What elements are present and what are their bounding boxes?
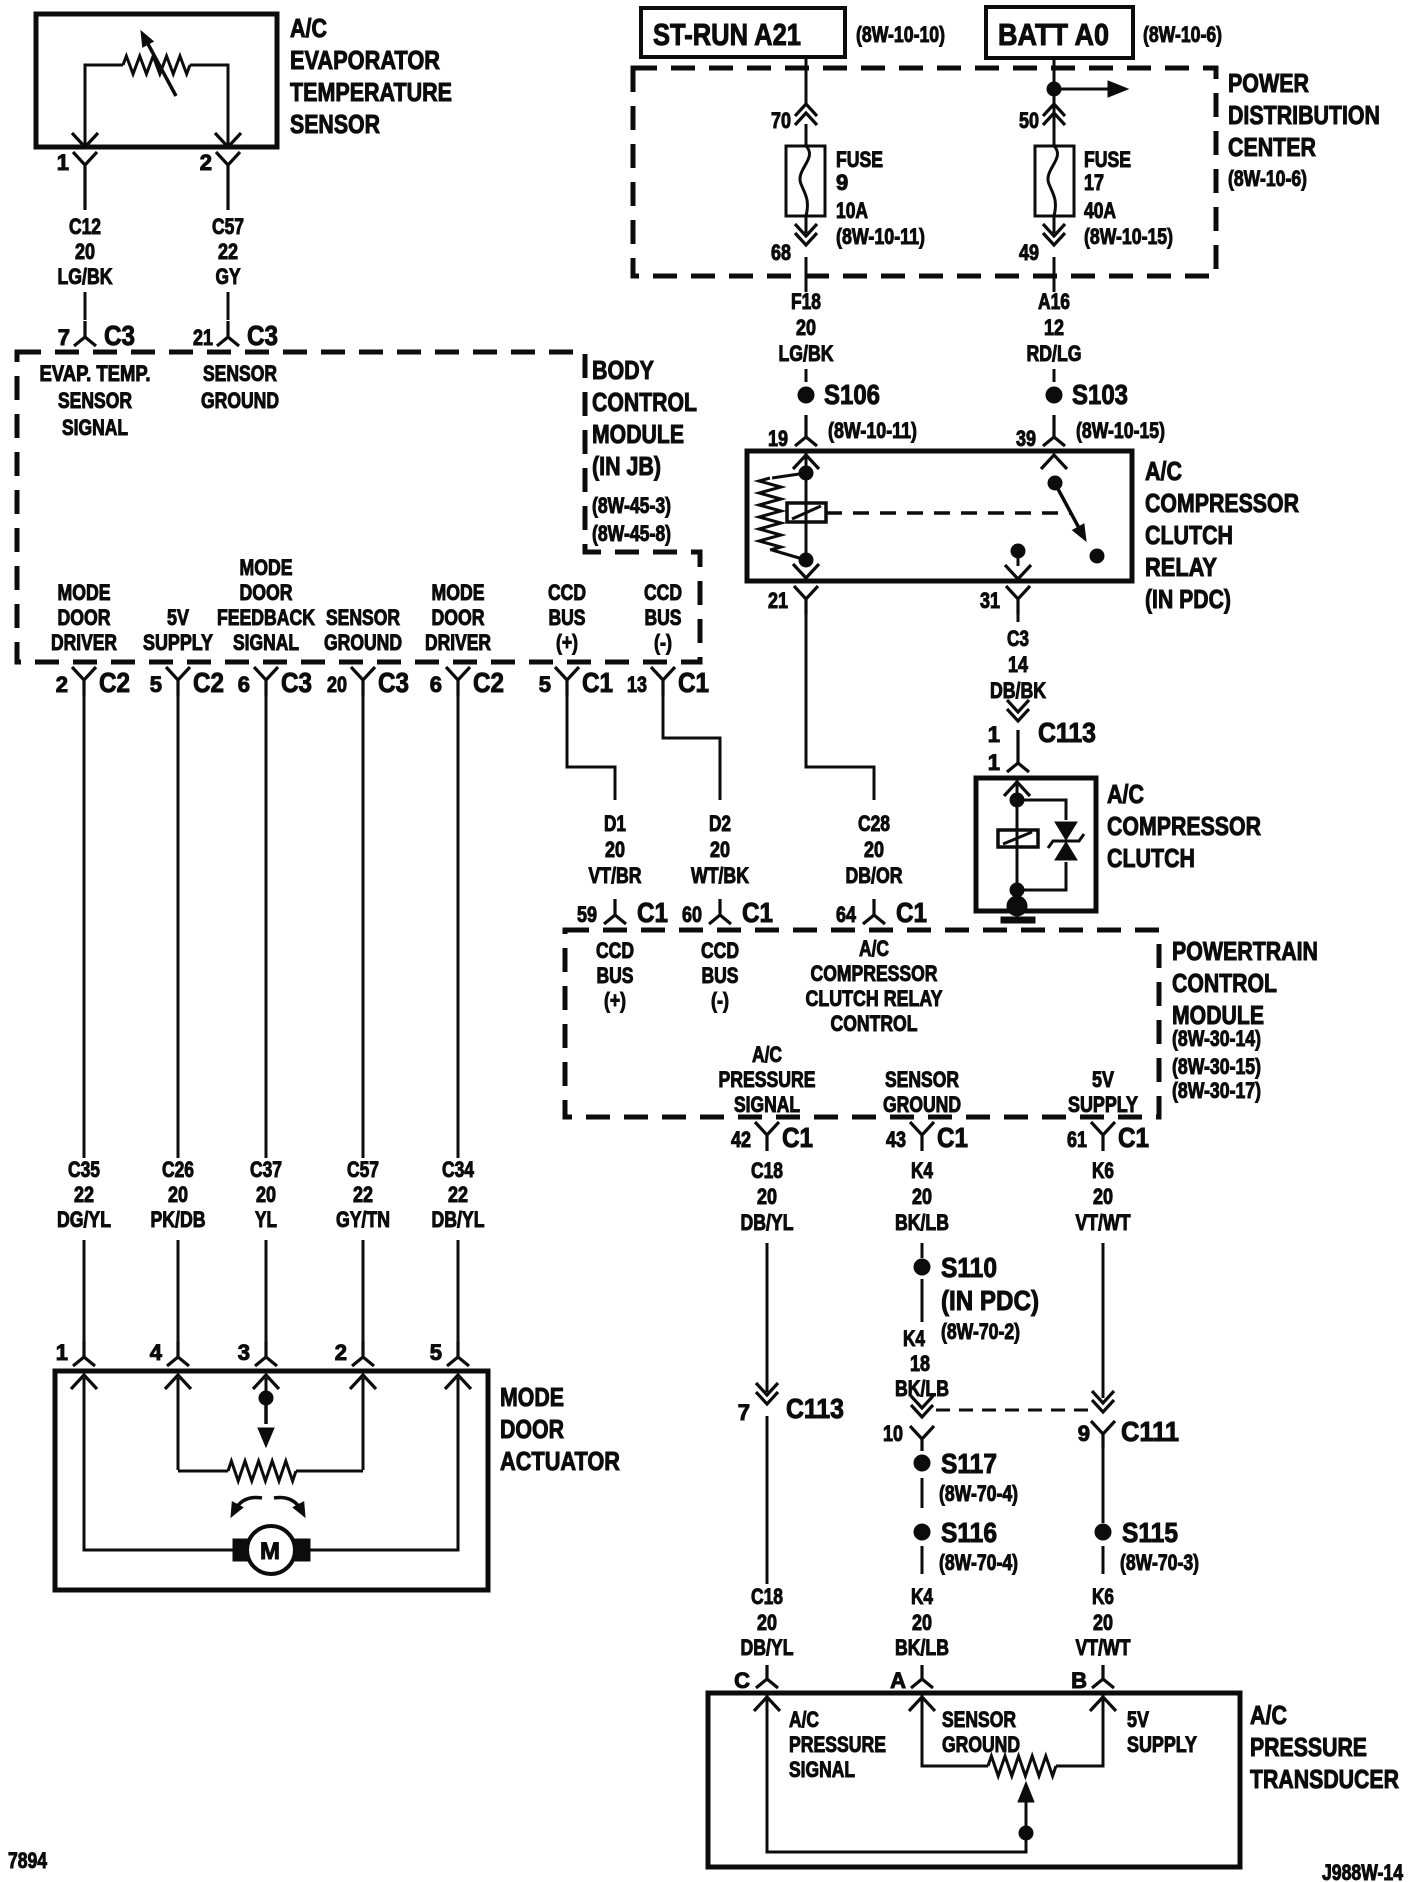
svg-text:MODULE: MODULE: [592, 419, 684, 449]
wire: S115 down: [1102, 1546, 1105, 1574]
svg-text:S117: S117: [941, 1448, 997, 1479]
svg-text:CCD: CCD: [701, 938, 739, 963]
svg-text:42: 42: [731, 1127, 751, 1152]
svg-text:(IN JB): (IN JB): [592, 451, 661, 481]
svg-text:(8W-45-8): (8W-45-8): [592, 521, 671, 546]
svg-text:1: 1: [988, 722, 1000, 747]
svg-text:COMPRESSOR: COMPRESSOR: [1107, 811, 1261, 841]
clutch coil L1: [998, 830, 1038, 847]
svg-text:7: 7: [58, 325, 70, 350]
svg-text:CONTROL: CONTROL: [592, 387, 697, 417]
splice S110: [914, 1252, 997, 1283]
svg-text:DOOR: DOOR: [58, 605, 111, 630]
svg-text:VT/WT: VT/WT: [1076, 1210, 1131, 1235]
connector pin 2 (mode door actuator): [335, 1340, 374, 1366]
wire: S117 to S116: [921, 1478, 924, 1508]
label: BCM function at x=266: [217, 555, 315, 655]
arrow: rotation arc left: [231, 1498, 262, 1518]
connector pin 21 (relay bottom): [768, 586, 818, 615]
label: wire C57 22 GY: [212, 214, 244, 289]
svg-text:20: 20: [327, 672, 347, 697]
label: wire C37 20 YL: [250, 1157, 282, 1232]
connector pin B (transducer): [1071, 1665, 1114, 1693]
svg-text:SUPPLY: SUPPLY: [1068, 1092, 1138, 1117]
svg-text:K4: K4: [911, 1584, 934, 1609]
svg-text:CONTROL: CONTROL: [1172, 968, 1277, 998]
label: POWER DISTRIBUTION CENTER (8W-10-6): [1228, 68, 1380, 191]
svg-text:5: 5: [539, 672, 551, 697]
svg-text:BUS: BUS: [645, 605, 682, 630]
svg-text:CLUTCH: CLUTCH: [1145, 520, 1233, 550]
arrow into actuator at x=84: [71, 1375, 97, 1389]
label: (8W-70-3) at S115: [1120, 1550, 1199, 1575]
dashed link: in-line connector C111: [936, 1409, 1089, 1412]
ground: clutch case ground: [1001, 896, 1035, 923]
label: A/C PRESSURE SIGNAL (PCM): [719, 1042, 816, 1117]
label: wire K4 20 BK/LB (upper): [895, 1158, 949, 1235]
label: BODY CONTROL MODULE (IN JB): [592, 355, 697, 546]
svg-text:5: 5: [430, 1340, 442, 1365]
svg-text:K6: K6: [1092, 1158, 1114, 1183]
label: (8W-70-4) at S117: [939, 1481, 1018, 1506]
wire: C26 20 PK/DB (lower segment): [177, 1240, 180, 1346]
connector pin 60 C1 (PCM): [682, 897, 773, 928]
svg-text:K4: K4: [911, 1158, 934, 1183]
label: A/C COMPRESSOR CLUTCH: [1107, 779, 1261, 873]
dashed link: relay armature: [826, 511, 1071, 515]
svg-text:C35: C35: [68, 1157, 100, 1182]
svg-text:10: 10: [883, 1421, 903, 1446]
svg-text:SENSOR: SENSOR: [203, 361, 277, 386]
svg-text:(8W-70-3): (8W-70-3): [1120, 1550, 1199, 1575]
svg-text:C2: C2: [99, 667, 130, 698]
wire: actuator pin 5 to motor: [309, 1378, 458, 1550]
label: EVAP. TEMP. SENSOR SIGNAL: [40, 361, 151, 440]
svg-text:M: M: [260, 1538, 280, 1565]
label: BCM function at x=567: [548, 580, 586, 655]
label: SENSOR GROUND (BCM pin 21): [201, 361, 279, 413]
svg-text:C111: C111: [1121, 1416, 1179, 1447]
label: (IN PDC) (8W-70-2) at S110: [941, 1285, 1039, 1344]
label: wire D2 20 WT/BK: [691, 811, 749, 888]
connector pin C (transducer): [734, 1665, 778, 1693]
wire: C111 pin 9 to S115: [1102, 1448, 1105, 1523]
svg-text:61: 61: [1067, 1127, 1087, 1152]
label: BCM function at x=458: [425, 580, 491, 655]
resistor: mode door feedback potentiometer: [178, 1461, 363, 1481]
box: body control module (dashed): [17, 352, 700, 662]
svg-text:DOOR: DOOR: [500, 1414, 564, 1444]
box: BATT A0 feed: [986, 7, 1133, 58]
wire: BATT A0 into PDC: [1053, 58, 1056, 146]
svg-text:LG/BK: LG/BK: [58, 264, 113, 289]
node: clutch coil top junction: [1010, 793, 1024, 807]
node: relay coil bottom junction: [799, 553, 813, 567]
svg-text:F18: F18: [791, 289, 821, 314]
svg-text:DRIVER: DRIVER: [425, 630, 491, 655]
svg-text:DRIVER: DRIVER: [51, 630, 117, 655]
svg-text:PRESSURE: PRESSURE: [1250, 1732, 1367, 1762]
label: A/C EVAPORATOR TEMPERATURE SENSOR: [290, 13, 452, 139]
svg-text:50: 50: [1019, 108, 1039, 133]
svg-text:A/C: A/C: [290, 13, 327, 43]
svg-text:14: 14: [1008, 652, 1029, 677]
connector pin 49 (PDC): [1019, 224, 1065, 265]
label: FUSE 9 10A (8W-10-11): [836, 147, 925, 249]
svg-text:C2: C2: [193, 667, 224, 698]
svg-text:VT/WT: VT/WT: [1076, 1635, 1131, 1660]
label: wire C12 20 LG/BK: [58, 214, 113, 289]
connector pin 31 (relay bottom): [980, 586, 1030, 615]
arrow into actuator at x=363: [350, 1375, 376, 1389]
svg-text:SENSOR: SENSOR: [290, 109, 380, 139]
svg-text:C113: C113: [1038, 717, 1096, 748]
wire: relay coil vertical: [805, 451, 808, 560]
arrow: feedback wiper: [258, 1398, 274, 1447]
svg-text:12: 12: [1044, 315, 1064, 340]
connector pin 39 (relay): [1016, 415, 1065, 451]
svg-text:(8W-30-14): (8W-30-14): [1172, 1026, 1261, 1051]
label: figure number 7894: [8, 1848, 48, 1873]
arrow into transducer pin B: [1090, 1697, 1116, 1711]
svg-text:CCD: CCD: [596, 938, 634, 963]
svg-text:C57: C57: [347, 1157, 379, 1182]
arrow out of relay at terminal 31: [1005, 565, 1031, 579]
label: wire A16 12 RD/LG: [1027, 289, 1082, 366]
svg-text:(+): (+): [556, 630, 578, 655]
svg-text:1: 1: [56, 1340, 68, 1365]
label: (8W-10-6): [1143, 22, 1222, 47]
svg-text:CENTER: CENTER: [1228, 132, 1316, 162]
svg-text:DB/YL: DB/YL: [741, 1635, 794, 1660]
connector pin 50 (PDC): [1019, 104, 1065, 133]
svg-text:BUS: BUS: [702, 963, 739, 988]
svg-text:7: 7: [738, 1400, 750, 1425]
svg-text:C18: C18: [751, 1158, 783, 1183]
label: wire K4 20 BK/LB (lower): [895, 1584, 949, 1660]
label: A/C COMPRESSOR CLUTCH RELAY (IN PDC): [1145, 456, 1299, 614]
svg-text:BODY: BODY: [592, 355, 654, 385]
connector pin 68 (PDC): [771, 224, 817, 265]
connector pin 5 C2 (BCM bottom): [150, 667, 224, 698]
node: wiper junction: [1019, 1826, 1033, 1840]
label: A/C COMPRESSOR CLUTCH RELAY CONTROL: [806, 936, 943, 1036]
connector pin 42 C1 (PCM bottom): [731, 1122, 813, 1153]
wire: CCD bus (-) BCM 13 to PCM 60 (D2): [663, 694, 720, 800]
svg-text:C12: C12: [69, 214, 101, 239]
label: CCD BUS (+) (PCM): [596, 938, 634, 1013]
label: 1 C113: [988, 717, 1096, 748]
connector pin 6 C2 (BCM bottom): [430, 667, 504, 698]
svg-text:SENSOR: SENSOR: [885, 1067, 959, 1092]
node: clutch coil bottom junction: [1010, 883, 1024, 897]
svg-text:C1: C1: [637, 897, 668, 928]
splice S117: [914, 1448, 997, 1479]
splice S116: [914, 1517, 997, 1548]
svg-text:C28: C28: [858, 811, 890, 836]
wire: C34 22 DB/YL (lower segment): [457, 1240, 460, 1346]
svg-text:4: 4: [150, 1340, 163, 1365]
connector pin 9 (male half): [1078, 1416, 1179, 1448]
connector C113 pin 7: [738, 1383, 844, 1425]
svg-text:C1: C1: [937, 1122, 968, 1153]
arrow into transducer pin C: [754, 1697, 780, 1711]
wire: relay 21 to PCM 64 (C28): [806, 615, 874, 800]
svg-text:FUSE: FUSE: [836, 147, 883, 172]
svg-text:SIGNAL: SIGNAL: [734, 1092, 800, 1117]
svg-text:20: 20: [757, 1610, 777, 1635]
svg-text:TEMPERATURE: TEMPERATURE: [290, 77, 452, 107]
svg-text:9: 9: [836, 170, 848, 195]
wire: stub above splice S103: [1053, 369, 1056, 382]
svg-text:BK/LB: BK/LB: [895, 1376, 949, 1401]
svg-text:2: 2: [335, 1340, 347, 1365]
svg-text:C34: C34: [442, 1157, 475, 1182]
svg-text:A/C: A/C: [1250, 1700, 1287, 1730]
label: wire C28 20 DB/OR: [846, 811, 903, 888]
svg-text:CCD: CCD: [548, 580, 586, 605]
svg-text:DOOR: DOOR: [432, 605, 485, 630]
svg-text:GROUND: GROUND: [883, 1092, 961, 1117]
svg-text:S106: S106: [824, 379, 880, 410]
splice S103: [1046, 379, 1128, 410]
svg-text:60: 60: [682, 902, 702, 927]
connector pin A (transducer): [890, 1665, 933, 1693]
label: wire C18 20 DB/YL (lower): [741, 1584, 794, 1660]
svg-text:C18: C18: [751, 1584, 783, 1609]
svg-text:SENSOR: SENSOR: [326, 605, 400, 630]
label: (8W-10-10): [856, 22, 945, 47]
svg-text:C37: C37: [250, 1157, 282, 1182]
connector pin 20 C3 (BCM bottom): [327, 667, 409, 698]
label: A/C PRESSURE TRANSDUCER: [1250, 1700, 1399, 1794]
svg-text:A16: A16: [1038, 289, 1070, 314]
svg-text:(8W-30-15): (8W-30-15): [1172, 1054, 1261, 1079]
svg-text:(-): (-): [654, 630, 672, 655]
wire: stub above splice S106: [805, 369, 808, 382]
wire: K4 to splice S110: [921, 1243, 924, 1258]
wire: wiper to pin C: [767, 1693, 1026, 1852]
svg-text:DOOR: DOOR: [240, 580, 293, 605]
svg-text:VT/BR: VT/BR: [589, 863, 642, 888]
svg-text:CCD: CCD: [644, 580, 682, 605]
svg-text:20: 20: [168, 1182, 188, 1207]
diode: clutch suppression (bidirectional): [1048, 822, 1084, 860]
svg-text:PRESSURE: PRESSURE: [719, 1067, 816, 1092]
motor M (mode door actuator): [233, 1526, 310, 1574]
node: relay coil top junction: [799, 466, 813, 480]
box: A/C evaporator temperature sensor: [36, 14, 277, 147]
box: mode door actuator: [55, 1371, 488, 1590]
label: 5V SUPPLY (PCM): [1068, 1067, 1138, 1117]
wire: C57 22 GY/TN (lower segment): [362, 1240, 365, 1346]
connector C113 pin 1 (female half): [1007, 700, 1029, 721]
resistor: relay coil suppression: [759, 473, 806, 560]
svg-text:DG/YL: DG/YL: [57, 1207, 111, 1232]
svg-text:DB/YL: DB/YL: [432, 1207, 485, 1232]
label: (8W-10-15) at S103: [1076, 418, 1165, 443]
svg-text:A/C: A/C: [1145, 456, 1182, 486]
connector pin 1 (mode door actuator): [56, 1340, 95, 1366]
svg-text:(+): (+): [604, 988, 626, 1013]
svg-text:BK/LB: BK/LB: [895, 1210, 949, 1235]
svg-text:20: 20: [912, 1184, 932, 1209]
arrow out of relay at terminal 21: [793, 564, 819, 578]
thermistor (variable resistor) inside sensor: [85, 56, 228, 147]
svg-text:MODE: MODE: [58, 580, 111, 605]
connector pin 10 (male half): [883, 1421, 934, 1451]
box: powertrain control module (dashed): [565, 930, 1159, 1117]
arrow into pin 1 (inside sensor box): [72, 133, 98, 147]
svg-text:21: 21: [193, 325, 213, 350]
svg-text:70: 70: [771, 108, 791, 133]
box: A/C pressure transducer: [708, 1693, 1240, 1867]
fuse 9 10A: [786, 146, 825, 216]
connector pin 21 C3: [193, 320, 278, 351]
box: A/C compressor clutch relay: [747, 451, 1132, 581]
svg-text:PK/DB: PK/DB: [151, 1207, 206, 1232]
svg-text:20: 20: [757, 1184, 777, 1209]
svg-text:(8W-45-3): (8W-45-3): [592, 493, 671, 518]
arrow into actuator at x=266: [253, 1375, 279, 1389]
box: ST-RUN A21 feed: [641, 8, 845, 57]
svg-text:20: 20: [256, 1182, 276, 1207]
svg-text:RELAY: RELAY: [1145, 552, 1217, 582]
svg-text:6: 6: [430, 672, 442, 697]
node: wiper junction on pin 3 wire: [259, 1378, 273, 1405]
connector pin 5 (mode door actuator): [430, 1340, 469, 1366]
svg-text:49: 49: [1019, 240, 1039, 265]
label: BCM function at x=84: [51, 580, 117, 655]
label: wire C3 14 DB/BK: [990, 626, 1046, 703]
svg-text:BUS: BUS: [549, 605, 586, 630]
svg-text:(8W-70-4): (8W-70-4): [939, 1550, 1018, 1575]
svg-text:10A: 10A: [836, 198, 868, 223]
svg-text:SIGNAL: SIGNAL: [789, 1757, 855, 1782]
svg-text:20: 20: [796, 315, 816, 340]
svg-text:(8W-70-4): (8W-70-4): [939, 1481, 1018, 1506]
label: wire C18 20 DB/YL (upper): [741, 1158, 794, 1235]
svg-text:(8W-30-17): (8W-30-17): [1172, 1078, 1261, 1103]
relay switch fixed contact: [1011, 544, 1025, 566]
connector pin 6 C3 (BCM bottom): [238, 667, 312, 698]
label: MODE DOOR ACTUATOR: [500, 1382, 620, 1476]
svg-text:22: 22: [74, 1182, 94, 1207]
label: 5V SUPPLY (transducer): [1127, 1707, 1197, 1757]
svg-text:SENSOR: SENSOR: [942, 1707, 1016, 1732]
svg-text:TRANSDUCER: TRANSDUCER: [1250, 1764, 1399, 1794]
svg-text:GROUND: GROUND: [942, 1732, 1020, 1757]
svg-text:(8W-10-15): (8W-10-15): [1076, 418, 1165, 443]
svg-text:40A: 40A: [1084, 198, 1116, 223]
arrow into clutch: [1004, 782, 1030, 796]
svg-text:S115: S115: [1122, 1517, 1178, 1548]
connector pin 19 (relay): [768, 415, 817, 451]
svg-text:1: 1: [988, 750, 1000, 775]
svg-text:FEEDBACK: FEEDBACK: [217, 605, 315, 630]
svg-text:21: 21: [768, 588, 788, 613]
svg-text:SUPPLY: SUPPLY: [143, 630, 213, 655]
arrow: transducer wiper: [1018, 1782, 1034, 1832]
svg-text:EVAPORATOR: EVAPORATOR: [290, 45, 440, 75]
svg-text:9: 9: [1078, 1421, 1090, 1446]
svg-text:FUSE: FUSE: [1084, 147, 1131, 172]
label: BCM function at x=363: [324, 605, 402, 655]
connector pin 59 C1 (PCM): [577, 897, 668, 928]
svg-text:S116: S116: [941, 1517, 997, 1548]
svg-text:1: 1: [57, 150, 69, 175]
node: BATT junction with feed arrow: [1047, 81, 1128, 97]
svg-text:PRESSURE: PRESSURE: [789, 1732, 886, 1757]
svg-text:7894: 7894: [8, 1848, 48, 1873]
connector pin 13 C1 (BCM bottom): [627, 667, 709, 698]
arrow: rotation arc right: [274, 1498, 305, 1518]
svg-text:5V: 5V: [1092, 1067, 1114, 1092]
svg-text:MODE: MODE: [432, 580, 485, 605]
wire: actuator pin 4 to feedback resistor: [177, 1378, 180, 1470]
svg-text:CLUTCH RELAY: CLUTCH RELAY: [806, 986, 943, 1011]
wire: C35 22 DG/YL (upper segment): [83, 696, 86, 1158]
wire: fuse 17 to pin 49 and out of PDC: [1053, 216, 1056, 292]
svg-text:MODE: MODE: [500, 1382, 564, 1412]
svg-text:GROUND: GROUND: [324, 630, 402, 655]
svg-text:C113: C113: [786, 1393, 844, 1424]
wire: actuator pin 1 to motor: [84, 1378, 233, 1550]
wire: C57 22 GY/TN (upper segment): [362, 696, 365, 1158]
connector pin 64 C1 (PCM): [836, 897, 927, 928]
fuse 17 40A: [1035, 146, 1074, 216]
svg-text:C3: C3: [378, 667, 409, 698]
svg-text:C1: C1: [678, 667, 709, 698]
connector pin 7 C3: [58, 320, 135, 351]
svg-text:GROUND: GROUND: [201, 388, 279, 413]
svg-text:DB/BK: DB/BK: [990, 678, 1046, 703]
svg-text:A/C: A/C: [789, 1707, 819, 1732]
svg-text:RD/LG: RD/LG: [1027, 341, 1082, 366]
connector C111 pin 9 (female half): [1092, 1391, 1114, 1412]
pin 2 of evap temp sensor: [200, 150, 240, 210]
svg-text:5V: 5V: [167, 605, 189, 630]
svg-text:(8W-70-2): (8W-70-2): [941, 1319, 1020, 1344]
svg-text:C2: C2: [473, 667, 504, 698]
connector pin 1 (clutch, male half): [1007, 730, 1029, 772]
svg-text:C1: C1: [742, 897, 773, 928]
svg-text:ACTUATOR: ACTUATOR: [500, 1446, 620, 1476]
connector pin 70 (PDC): [771, 104, 817, 133]
svg-text:S103: S103: [1072, 379, 1128, 410]
relay switch (movable contact): [1048, 476, 1104, 563]
wire: S116 down: [921, 1546, 924, 1574]
label: CCD BUS (-) (PCM): [701, 938, 739, 1013]
svg-text:POWERTRAIN: POWERTRAIN: [1172, 936, 1318, 966]
wire: CCD bus (+) BCM 5 to PCM 59 (D1): [567, 694, 615, 800]
svg-text:20: 20: [710, 837, 730, 862]
wire: C18 upper segment: [766, 1243, 769, 1392]
connector C111 pin 10 (female half): [911, 1396, 933, 1417]
svg-text:68: 68: [771, 240, 791, 265]
wire: fuse 9 to pin 68 and out of PDC: [805, 216, 808, 292]
svg-text:MODE: MODE: [240, 555, 293, 580]
arrow into pin 2 (inside sensor box): [215, 133, 241, 147]
svg-text:S110: S110: [941, 1252, 997, 1283]
splice S106: [798, 379, 880, 410]
svg-text:22: 22: [218, 239, 238, 264]
svg-text:BUS: BUS: [597, 963, 634, 988]
label: wire C35 22 DG/YL: [57, 1157, 111, 1232]
svg-text:SIGNAL: SIGNAL: [233, 630, 299, 655]
label: SENSOR GROUND (PCM): [883, 1067, 961, 1117]
wire: C37 20 YL (upper segment): [265, 696, 268, 1158]
